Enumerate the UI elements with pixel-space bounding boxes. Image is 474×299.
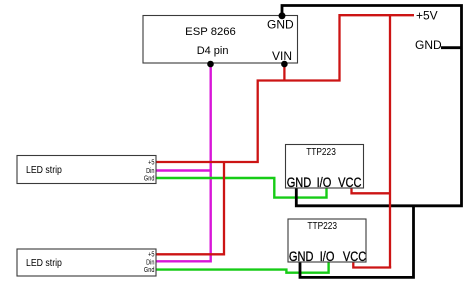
junction dot: ESP D4 pin: [207, 61, 214, 68]
wire: black GND branch TTP223#2 GND to GND rail (x=413.5): [300, 206, 414, 278]
svg-text:Gnd: Gnd: [144, 175, 155, 183]
svg-text:VCC: VCC: [343, 249, 366, 265]
TTP223 touch sensor 2 box: [288, 219, 366, 262]
svg-text:GND: GND: [289, 249, 314, 265]
wire: green net LED1 Gnd to TTP223#1 I/O: [156, 178, 327, 198]
svg-text:LED strip: LED strip: [26, 256, 62, 268]
wire: red branch TTP223#1 VCC to +5V rail: [352, 188, 391, 193]
wire: red +5V vertical rail x=390: [389, 15, 391, 267]
wire: black GND net ESP GND up over top, down right side, bottom rail to TTP223#1 GND: [282, 6, 462, 206]
svg-text:+5V: +5V: [416, 8, 438, 22]
svg-text:GND: GND: [415, 38, 442, 52]
svg-text:I/O: I/O: [317, 175, 332, 191]
svg-text:D4 pin: D4 pin: [197, 45, 229, 57]
svg-text:VCC: VCC: [338, 175, 361, 191]
svg-text:GND: GND: [267, 18, 294, 32]
wire: red branch down to LED2 +5 (x=224): [156, 162, 224, 254]
svg-text:+5: +5: [148, 251, 155, 259]
svg-text:Din: Din: [146, 259, 155, 267]
LED strip 2 box: [17, 249, 156, 276]
wire: red stub VIN pin to VIN rail: [283, 64, 285, 81]
wire: black stub from GND label to right-side GND rail (y=47.7): [441, 46, 462, 49]
wire: red branch TTP223#2 VCC to +5V rail: [353, 262, 391, 268]
junction dot: ESP VIN pin: [281, 61, 288, 68]
svg-text:Gnd: Gnd: [144, 266, 155, 274]
svg-text:TTP223: TTP223: [306, 146, 336, 157]
svg-text:+5: +5: [148, 159, 155, 167]
wire: magenta net D4 pin to LED2 Din (vertical x=210.7 then left): [156, 64, 211, 261]
wire: magenta branch to LED1 Din (y=170.5): [156, 169, 212, 171]
junction dot: ESP GND pin: [279, 12, 286, 19]
wire: red +5V rail from +5V label down to VIN rail and LED1 +5: [156, 15, 414, 162]
svg-text:I/O: I/O: [320, 249, 335, 265]
TTP223 touch sensor 1 box: [286, 145, 364, 189]
svg-text:TTP223: TTP223: [307, 220, 337, 231]
wire: green net LED2 Gnd to TTP223#2 I/O: [156, 262, 329, 273]
ESP 8266 module U1 box: [143, 16, 298, 64]
LED strip 1 box: [17, 156, 156, 184]
svg-text:VIN: VIN: [272, 49, 292, 63]
svg-text:GND: GND: [287, 175, 312, 191]
svg-text:ESP 8266: ESP 8266: [185, 26, 236, 38]
svg-text:LED strip: LED strip: [26, 163, 62, 175]
